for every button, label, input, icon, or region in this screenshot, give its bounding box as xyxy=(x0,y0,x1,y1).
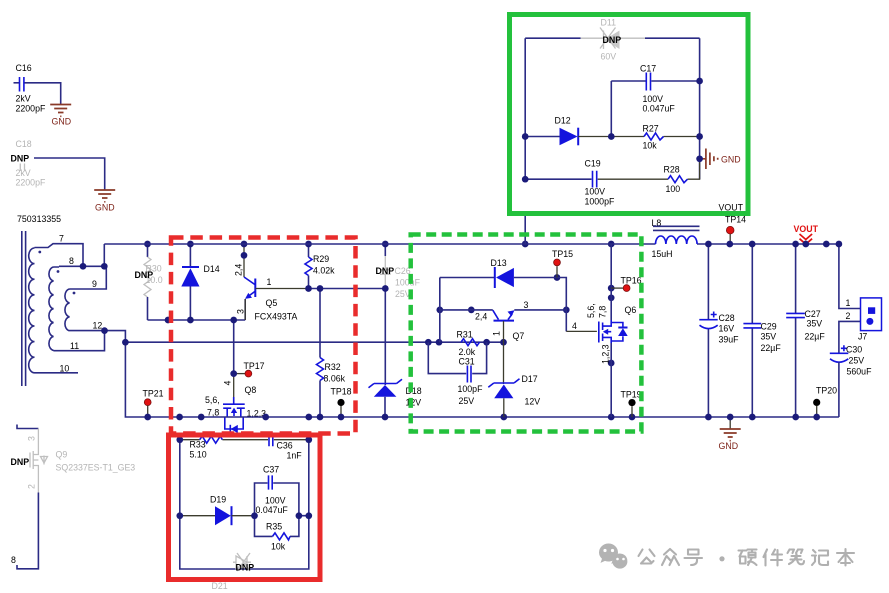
svg-text:750313355: 750313355 xyxy=(17,214,61,224)
svg-text:C26: C26 xyxy=(395,266,411,276)
svg-text:25V: 25V xyxy=(849,356,865,366)
svg-text:7: 7 xyxy=(59,234,64,244)
svg-text:100uF: 100uF xyxy=(395,278,421,288)
svg-text:10k: 10k xyxy=(643,141,658,151)
svg-text:2200pF: 2200pF xyxy=(16,178,46,188)
svg-text:22µF: 22µF xyxy=(761,343,782,353)
svg-text:100V: 100V xyxy=(265,496,286,506)
svg-text:C27: C27 xyxy=(805,309,821,319)
svg-text:DNP: DNP xyxy=(603,35,622,45)
svg-text:GND: GND xyxy=(95,203,115,213)
svg-text:D21: D21 xyxy=(212,581,228,591)
svg-text:60V: 60V xyxy=(601,52,617,62)
svg-text:C36: C36 xyxy=(277,441,293,451)
svg-text:C37: C37 xyxy=(263,465,279,475)
svg-text:4: 4 xyxy=(223,381,233,386)
svg-text:R31: R31 xyxy=(457,330,473,340)
svg-text:D13: D13 xyxy=(491,258,507,268)
svg-text:R28: R28 xyxy=(664,165,680,175)
svg-text:10: 10 xyxy=(60,364,70,374)
svg-text:DNP: DNP xyxy=(11,154,30,164)
svg-text:12V: 12V xyxy=(525,397,541,407)
svg-text:Q8: Q8 xyxy=(245,385,257,395)
svg-text:7,8: 7,8 xyxy=(207,408,219,418)
svg-text:2: 2 xyxy=(846,311,851,321)
svg-text:4.02k: 4.02k xyxy=(313,266,335,276)
svg-text:1: 1 xyxy=(267,277,272,287)
svg-text:5,6,: 5,6, xyxy=(205,395,220,405)
svg-text:Q6: Q6 xyxy=(625,305,637,315)
svg-text:D11: D11 xyxy=(601,18,617,28)
svg-text:C28: C28 xyxy=(719,313,735,323)
svg-text:GND: GND xyxy=(52,117,72,127)
svg-text:3: 3 xyxy=(524,300,529,310)
svg-text:R27: R27 xyxy=(643,124,659,134)
svg-text:11: 11 xyxy=(70,341,79,351)
svg-text:16V: 16V xyxy=(719,324,735,334)
svg-text:C17: C17 xyxy=(640,64,656,74)
svg-text:12: 12 xyxy=(93,321,103,331)
svg-text:TP20: TP20 xyxy=(816,386,837,396)
svg-text:DNP: DNP xyxy=(135,270,154,280)
svg-text:2,4: 2,4 xyxy=(234,264,244,276)
svg-text:C19: C19 xyxy=(585,159,601,169)
svg-text:2: 2 xyxy=(27,484,37,489)
svg-text:TP16: TP16 xyxy=(621,276,642,286)
svg-text:D18: D18 xyxy=(406,386,422,396)
svg-text:DNP: DNP xyxy=(376,266,395,276)
svg-text:35V: 35V xyxy=(807,319,823,329)
svg-text:5,6,: 5,6, xyxy=(586,303,596,318)
svg-text:22µF: 22µF xyxy=(805,332,826,342)
svg-text:4: 4 xyxy=(572,321,577,331)
svg-text:FCX493TA: FCX493TA xyxy=(255,312,298,322)
svg-text:8: 8 xyxy=(69,256,74,266)
svg-text:TP17: TP17 xyxy=(244,361,265,371)
svg-text:TP15: TP15 xyxy=(552,249,573,259)
svg-text:J7: J7 xyxy=(858,332,867,342)
svg-text:100: 100 xyxy=(666,184,681,194)
svg-text:Q5: Q5 xyxy=(266,298,278,308)
svg-text:D14: D14 xyxy=(204,264,220,274)
svg-text:5.10: 5.10 xyxy=(190,450,207,460)
svg-text:D17: D17 xyxy=(522,374,538,384)
svg-text:DNP: DNP xyxy=(236,563,255,573)
svg-text:TP19: TP19 xyxy=(621,390,642,400)
svg-text:GND: GND xyxy=(719,441,739,451)
svg-text:7,8: 7,8 xyxy=(598,306,608,318)
svg-text:C29: C29 xyxy=(761,322,777,332)
svg-text:10k: 10k xyxy=(271,542,286,552)
svg-text:9: 9 xyxy=(92,279,97,289)
svg-text:Q7: Q7 xyxy=(513,331,525,341)
svg-text:C16: C16 xyxy=(16,63,32,73)
svg-text:3: 3 xyxy=(236,309,246,314)
svg-text:R29: R29 xyxy=(313,254,329,264)
svg-text:C30: C30 xyxy=(846,345,862,355)
svg-text:TP18: TP18 xyxy=(331,387,352,397)
svg-text:100pF: 100pF xyxy=(458,384,484,394)
svg-text:2200pF: 2200pF xyxy=(16,104,46,114)
svg-text:R32: R32 xyxy=(325,362,341,372)
svg-text:12V: 12V xyxy=(406,398,422,408)
svg-text:R35: R35 xyxy=(266,522,282,532)
svg-text:8.06k: 8.06k xyxy=(324,374,346,384)
svg-text:25V: 25V xyxy=(395,289,411,299)
svg-text:3: 3 xyxy=(27,436,37,441)
svg-text:8: 8 xyxy=(11,555,16,565)
svg-text:1: 1 xyxy=(492,331,502,336)
svg-text:1nF: 1nF xyxy=(287,451,303,461)
svg-text:2kV: 2kV xyxy=(16,168,31,178)
svg-text:25V: 25V xyxy=(459,396,475,406)
svg-text:100V: 100V xyxy=(643,94,664,104)
svg-text:TP21: TP21 xyxy=(143,389,164,399)
svg-text:C18: C18 xyxy=(16,139,32,149)
svg-text:39uF: 39uF xyxy=(719,335,740,345)
svg-text:0.047uF: 0.047uF xyxy=(256,505,289,515)
svg-text:Q9: Q9 xyxy=(56,450,68,460)
svg-text:C31: C31 xyxy=(459,357,475,367)
svg-text:100V: 100V xyxy=(585,187,606,197)
svg-text:SQ2337ES-T1_GE3: SQ2337ES-T1_GE3 xyxy=(56,463,136,473)
svg-text:1: 1 xyxy=(846,298,851,308)
svg-text:GND: GND xyxy=(721,155,741,165)
svg-text:2,4: 2,4 xyxy=(475,312,487,322)
svg-text:1,2,3: 1,2,3 xyxy=(601,344,611,364)
svg-text:560uF: 560uF xyxy=(847,367,873,377)
svg-text:D19: D19 xyxy=(210,495,226,505)
svg-text:1000pF: 1000pF xyxy=(585,197,615,207)
svg-text:R33: R33 xyxy=(190,440,206,450)
svg-text:DNP: DNP xyxy=(11,457,30,467)
svg-text:15uH: 15uH xyxy=(652,249,673,259)
svg-text:35V: 35V xyxy=(761,332,777,342)
svg-text:D12: D12 xyxy=(555,116,571,126)
svg-text:VOUT: VOUT xyxy=(794,224,819,234)
svg-text:2.0k: 2.0k xyxy=(459,347,476,357)
svg-text:2kV: 2kV xyxy=(16,94,31,104)
svg-text:0.047uF: 0.047uF xyxy=(643,104,676,114)
